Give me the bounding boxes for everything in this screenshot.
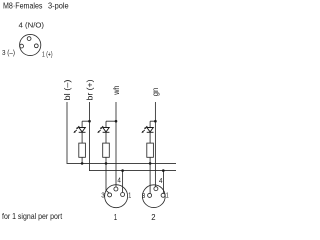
svg-text:wh: wh <box>112 86 121 96</box>
wire bl (-) vertical <box>66 102 68 163</box>
LED D3 <box>143 126 153 132</box>
junction dot R2/bus <box>105 162 108 165</box>
wire R2 to minus bus and on to pin 3 of port 1 <box>106 157 109 193</box>
resistor R3 <box>147 143 154 157</box>
junction dot R1/bus <box>81 162 84 165</box>
wire R3 to minus bus and on to pin 3 of port 2 <box>149 157 151 193</box>
LED branch 3 tap stub <box>150 121 155 127</box>
connector face M8 female (top detail) <box>20 34 41 55</box>
svg-text:3-pole: 3-pole <box>48 1 69 11</box>
LED branch 1 tap stub <box>82 121 89 127</box>
port 2 connector circle <box>142 185 165 208</box>
bus plus horizontal <box>89 170 176 172</box>
svg-text:2: 2 <box>151 212 156 222</box>
LED branch 2 tap stub <box>106 121 116 127</box>
port 1 pin 4 <box>114 187 118 191</box>
svg-text:3: 3 <box>101 190 105 199</box>
wire gn vertical <box>154 102 156 187</box>
svg-text:1: 1 <box>166 191 169 200</box>
svg-text:gn: gn <box>151 88 160 97</box>
bus minus horizontal <box>67 162 176 164</box>
resistor R1 <box>79 143 86 157</box>
junction dot R3/bus <box>149 162 152 165</box>
port 2 pin 3 <box>148 193 152 197</box>
junction dot port1 pin1 <box>121 169 124 172</box>
svg-text:3: 3 <box>142 191 146 200</box>
svg-text:1: 1 <box>114 212 118 222</box>
svg-text:4: 4 <box>117 175 121 184</box>
pin 1 (top detail) <box>34 44 38 48</box>
svg-text:for 1 signal per port: for 1 signal per port <box>2 211 63 221</box>
wire wh vertical <box>115 102 117 187</box>
port 2 pin 1 <box>161 193 165 197</box>
wire br (+) vertical <box>89 102 91 171</box>
svg-text:3 (–): 3 (–) <box>2 48 15 57</box>
svg-text:M8·Females: M8·Females <box>3 1 43 11</box>
svg-text:1 (+): 1 (+) <box>42 50 53 59</box>
resistor R2 <box>103 143 110 157</box>
port 1 connector circle <box>105 185 128 208</box>
junction dot on gn wire <box>154 120 157 123</box>
pin 3 (top detail) <box>20 44 24 48</box>
port 1 pin 1 <box>121 193 125 197</box>
wire LED3 to R3 <box>149 132 151 143</box>
pin 4 (top detail) <box>27 37 31 41</box>
port 2 pin 4 <box>154 187 158 191</box>
wire LED2 to R2 <box>105 132 107 143</box>
svg-text:4 (N/O): 4 (N/O) <box>19 20 45 29</box>
junction dot on wh wire <box>115 120 118 123</box>
wire LED1 to R1 <box>81 132 83 143</box>
wire plus bus to pin 1 of port 1 <box>122 171 124 193</box>
svg-text:br (+): br (+) <box>85 79 94 100</box>
junction dot on br wire <box>88 120 91 123</box>
port 1 pin 3 <box>108 193 112 197</box>
wire R1 to minus bus <box>81 157 83 163</box>
LED D1 <box>75 126 85 132</box>
wire plus bus to pin 1 of port 2 <box>162 171 164 194</box>
junction dot port2 pin1 <box>162 169 165 172</box>
svg-text:4: 4 <box>159 176 163 185</box>
LED D2 <box>99 126 109 132</box>
svg-text:bl (–): bl (–) <box>63 79 72 100</box>
svg-text:1: 1 <box>128 190 131 199</box>
